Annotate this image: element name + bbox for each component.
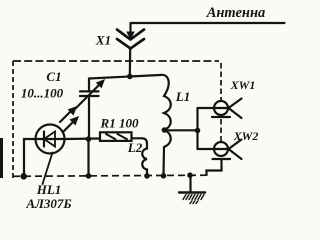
junction node A / rail xyxy=(86,173,92,179)
resistor R1 xyxy=(100,132,142,141)
wire top rail xyxy=(89,75,160,79)
junction L1 / rail xyxy=(161,173,167,179)
wire L1 tap to connector bus xyxy=(164,129,198,131)
wire antenna lead-in xyxy=(131,22,285,24)
junction ground / rail xyxy=(187,172,193,178)
wire X1 to top rail xyxy=(129,49,132,77)
svg-text:HL1: HL1 xyxy=(36,182,62,197)
svg-text:C1: C1 xyxy=(46,69,61,84)
emission arrows of HL1 xyxy=(60,111,71,122)
junction X1 / top rail xyxy=(127,74,133,80)
svg-text:R1 100: R1 100 xyxy=(100,116,139,131)
junction L2 / rail xyxy=(144,173,150,179)
wire antenna drop to X1 xyxy=(129,23,131,32)
wire node A to rail xyxy=(87,139,89,176)
svg-text:X1: X1 xyxy=(95,33,111,48)
connector XW2 xyxy=(198,140,242,160)
svg-text:XW2: XW2 xyxy=(233,129,259,143)
scan edge mark xyxy=(0,138,3,178)
wire XW2 shield to chassis xyxy=(207,160,222,176)
svg-text:XW1: XW1 xyxy=(230,78,256,92)
junction tap / bus xyxy=(195,128,201,134)
connector XW1 xyxy=(198,99,242,119)
svg-text:АЛ307Б: АЛ307Б xyxy=(25,196,71,211)
svg-text:L1: L1 xyxy=(175,89,190,104)
junction HL1 left / rail xyxy=(20,173,27,180)
wire connector bus xyxy=(196,108,198,149)
enclosure (dashed shield box) xyxy=(13,61,221,178)
junction node A (C1/HL1/R1) xyxy=(86,136,92,142)
chassis bottom rail (dashed) xyxy=(13,175,206,176)
connector X1 xyxy=(117,30,144,49)
wire HL1 left to rail xyxy=(24,139,36,176)
label HL1 with leader xyxy=(43,153,53,185)
ground symbol xyxy=(179,175,205,203)
junction L1 tap xyxy=(162,127,168,133)
svg-text:10...100: 10...100 xyxy=(21,86,64,101)
wire HL1 right to node A xyxy=(65,137,101,140)
inductor L1 xyxy=(160,75,171,176)
LED HL1 xyxy=(36,106,80,154)
inductor L2 xyxy=(142,138,147,176)
svg-text:Антенна: Антенна xyxy=(206,5,266,21)
svg-text:L2: L2 xyxy=(127,140,143,155)
capacitor C1 (variable) xyxy=(74,79,105,140)
